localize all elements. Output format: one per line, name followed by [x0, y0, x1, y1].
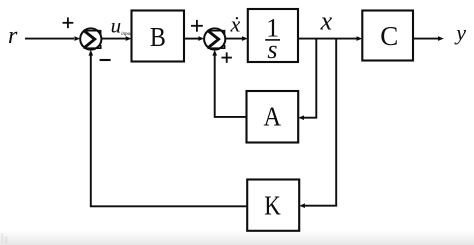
- wire integrator to block C: [298, 36, 362, 41]
- svg-text:A: A: [264, 101, 282, 131]
- summing junction S2: [204, 28, 225, 49]
- block B: [132, 11, 185, 62]
- svg-text:K: K: [264, 191, 281, 221]
- plus sign at S2 input from B: [191, 20, 203, 32]
- svg-text:s: s: [267, 35, 277, 64]
- wire A output to summer S2: [212, 50, 246, 117]
- svg-text:C: C: [380, 21, 398, 51]
- wire x tap down to block A input: [298, 39, 316, 120]
- block A: [247, 91, 299, 143]
- wire x tap down to block K input: [299, 39, 336, 208]
- wire r to summer S1: [25, 36, 80, 41]
- block K: [247, 180, 299, 231]
- minus sign at S1 feedback input: [100, 59, 111, 61]
- svg-text:x: x: [320, 7, 333, 36]
- svg-text:B: B: [150, 22, 166, 52]
- svg-text:y: y: [454, 20, 466, 45]
- wire B to summer S2: [184, 36, 204, 41]
- bottom-left smudge artifact: [1, 233, 8, 244]
- svg-text:ẋ: ẋ: [230, 12, 241, 37]
- bottom UI bar: [0, 230, 474, 245]
- block C: [362, 11, 413, 61]
- wire K output to summer S1: [89, 50, 248, 207]
- plus sign at S2 feedback input: [222, 52, 232, 62]
- wire S1 to block B: [102, 36, 132, 41]
- integrator block 1/s: [248, 9, 298, 64]
- plus sign at S1 reference input: [63, 17, 74, 28]
- wire C to output y: [413, 36, 444, 41]
- svg-text:r: r: [8, 23, 18, 49]
- wire S2 to integrator: [225, 36, 248, 41]
- summing junction S1: [80, 28, 101, 49]
